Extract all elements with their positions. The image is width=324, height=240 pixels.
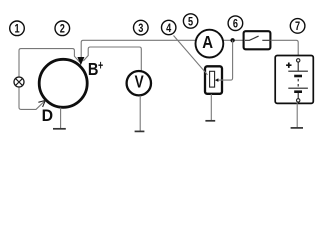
battery cell 2 long plate [288, 87, 308, 89]
svg-text:A: A [202, 33, 213, 52]
alternator G1 body [39, 59, 87, 107]
junction node [230, 38, 234, 42]
callout 7 [290, 19, 305, 34]
ground wire below regulator [210, 94, 212, 120]
battery GB1 box [275, 56, 313, 104]
arrowhead into resistor [215, 78, 219, 82]
stub plate to bottom terminal [297, 93, 299, 99]
battery cell 1 long plate [288, 70, 308, 72]
svg-text:B: B [88, 59, 99, 79]
ground wire below alternator [60, 108, 62, 129]
battery + label [286, 63, 291, 68]
callout 3 [134, 20, 149, 35]
battery bottom terminal [297, 99, 300, 102]
leader line from label 4 to regulator [174, 36, 208, 75]
callout 4 [162, 20, 176, 34]
callout 6 [228, 16, 243, 31]
callout 1 [10, 21, 25, 36]
wire bus2 from B+ to voltmeter [83, 47, 141, 71]
ground symbol below regulator [205, 120, 215, 122]
warning lamp H1 [14, 77, 24, 87]
ground wire below battery [296, 102, 298, 127]
svg-text:+: + [98, 59, 103, 73]
ground wire below voltmeter [139, 96, 141, 131]
ammeter A [196, 30, 224, 58]
svg-text:6: 6 [233, 17, 238, 31]
ignition switch S1 box [244, 31, 271, 49]
svg-text:D: D [42, 106, 54, 124]
callout 2 [55, 21, 70, 36]
resistor element inside regulator [210, 71, 215, 87]
svg-text:5: 5 [188, 15, 193, 29]
svg-text:3: 3 [138, 22, 143, 36]
arrowhead at B+ terminal [77, 57, 84, 65]
voltmeter V [127, 71, 151, 95]
svg-text:V: V [135, 73, 145, 92]
wire from lamp down to D terminal [19, 87, 45, 109]
dashed link between cells [297, 79, 299, 87]
battery top terminal [297, 59, 300, 62]
svg-text:2: 2 [60, 22, 65, 36]
wire from switch to battery [271, 40, 299, 58]
regulator box U1 [205, 66, 222, 94]
svg-text:7: 7 [295, 20, 300, 34]
callout 5 [183, 14, 197, 28]
stub terminal to plate [297, 62, 299, 70]
switch contacts and blade [245, 36, 269, 40]
svg-text:4: 4 [166, 22, 171, 36]
arrowhead at D terminal [38, 100, 45, 107]
ground symbol below voltmeter [135, 130, 145, 132]
wire from lamp up and right to B+ arrow [19, 49, 80, 78]
battery cell 1 short plate [294, 75, 302, 78]
wire from junction down into regulator [217, 40, 233, 80]
ground symbol below battery [291, 127, 303, 129]
battery cell 2 short plate [294, 90, 302, 93]
svg-text:1: 1 [14, 22, 19, 36]
wire bus1 from B+ to ammeter/switch [81, 40, 243, 59]
ground symbol below alternator [53, 128, 66, 130]
